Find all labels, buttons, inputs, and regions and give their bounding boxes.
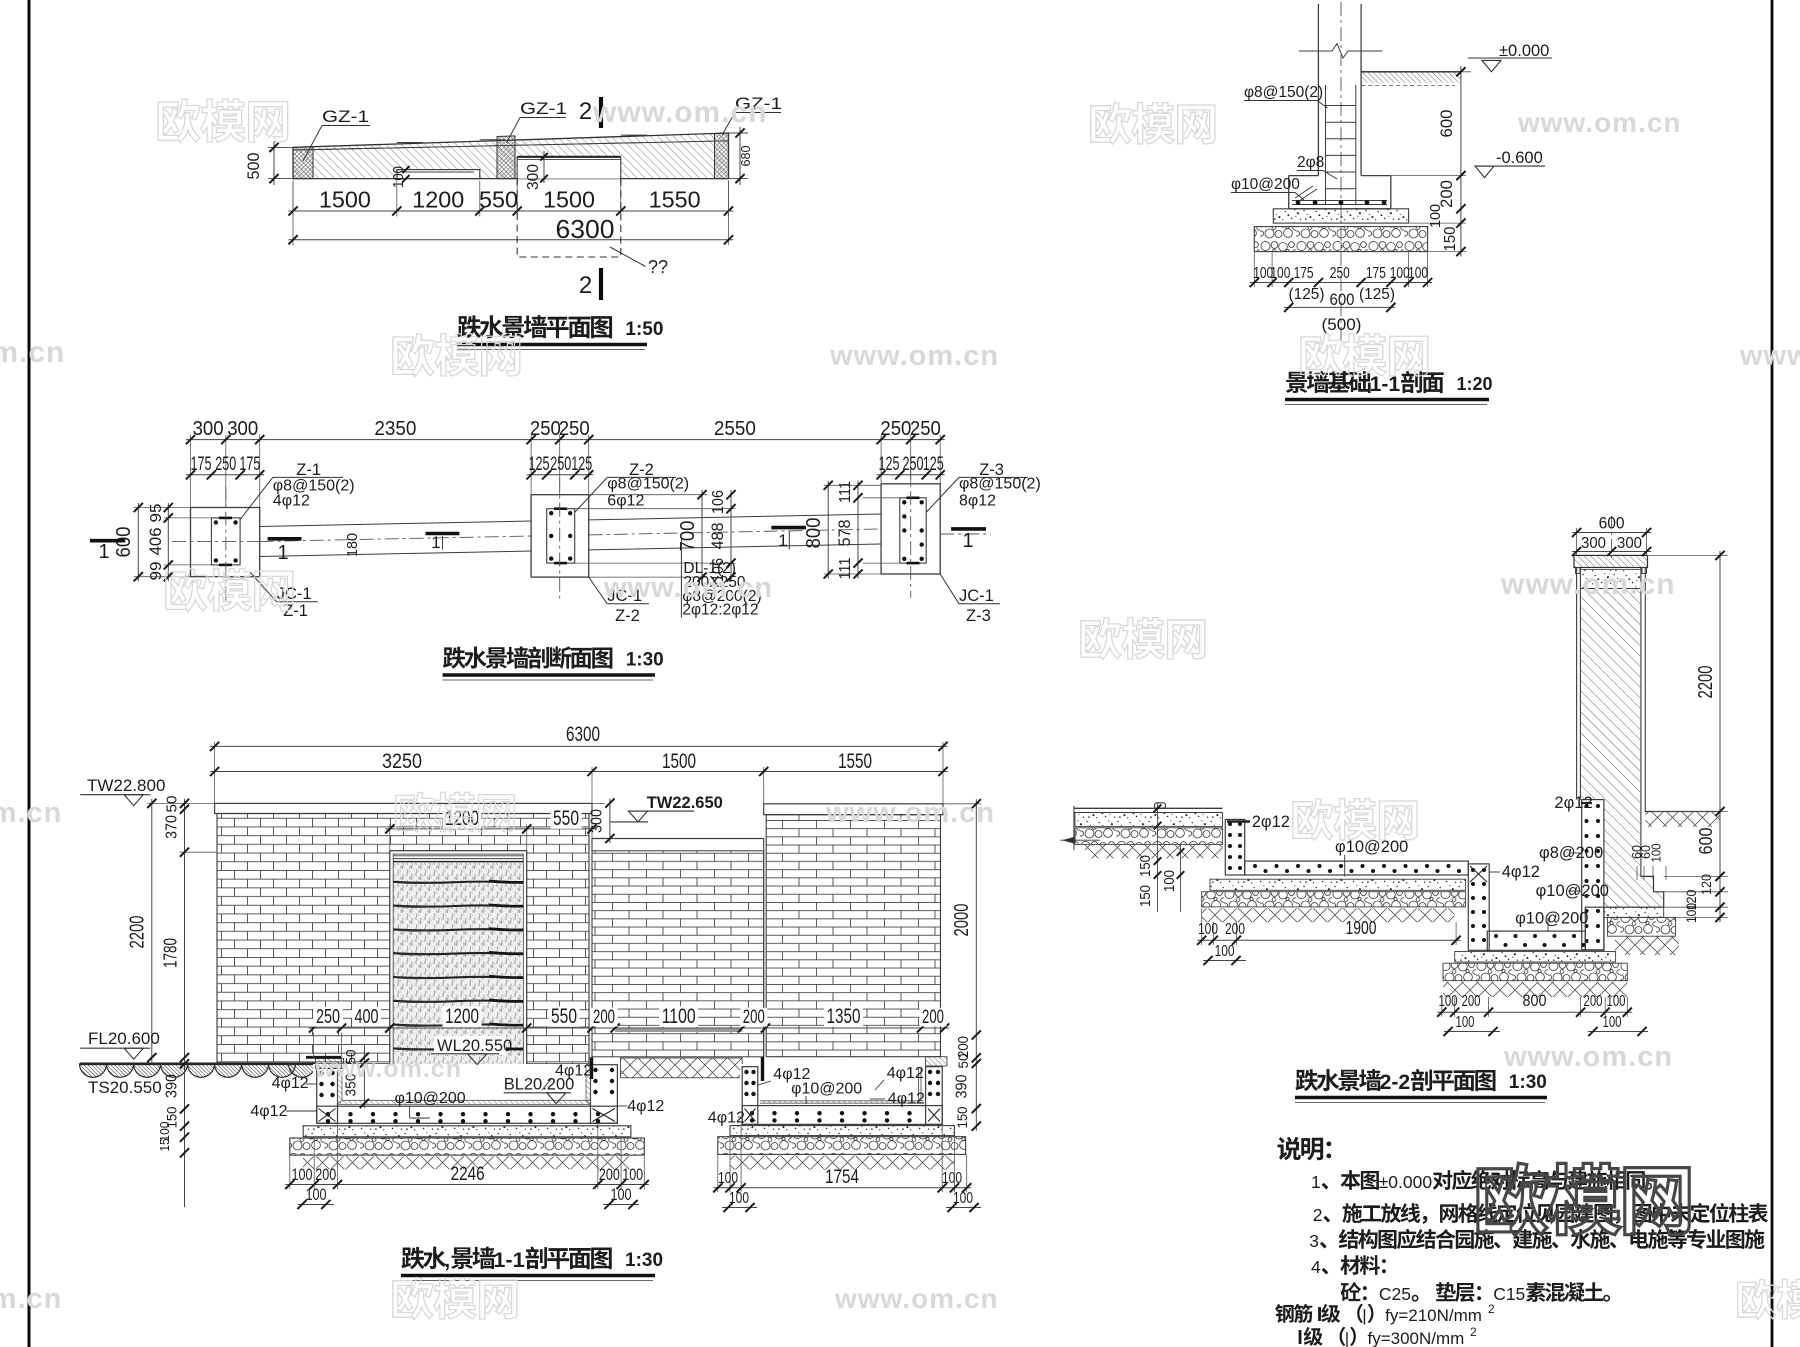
svg-text:250: 250 (1330, 265, 1350, 282)
svg-text:2000: 2000 (951, 904, 973, 937)
plan dim 680 right (729, 132, 749, 134)
svg-text:1500: 1500 (543, 187, 595, 213)
foundation C15 pad (stipple) (1273, 209, 1408, 223)
mid dim 800 for Z-3 (824, 484, 881, 486)
svg-text:1100: 1100 (662, 1005, 696, 1028)
svg-text:φ10@200: φ10@200 (395, 1090, 466, 1107)
elevation middle wall brick face (592, 851, 764, 1057)
foundation break line symbol (1299, 44, 1383, 59)
gray weir line middle section (615, 1029, 742, 1032)
mask right of border (1773, 1130, 1800, 1270)
svg-text:100: 100 (1427, 204, 1444, 228)
svg-text:111: 111 (837, 557, 854, 579)
elevation top dim 6300 (214, 742, 216, 804)
foundation footing step (1289, 175, 1319, 177)
svg-text:FL20.600: FL20.600 (88, 1029, 160, 1048)
svg-text:250: 250 (910, 418, 941, 440)
foundation centerline (1340, 2, 1342, 345)
svg-text:1550: 1550 (649, 187, 701, 213)
svg-text:1200: 1200 (412, 187, 464, 213)
svg-text:200: 200 (315, 1165, 336, 1184)
svg-text:φ10@200: φ10@200 (791, 1081, 862, 1098)
svg-text:2: 2 (1313, 1205, 1323, 1225)
svg-text:200: 200 (1462, 993, 1481, 1010)
section2-2 basin left wall 2phi12 (1225, 819, 1244, 875)
svg-text:4φ12: 4φ12 (627, 1098, 664, 1115)
foundation detail: wall stem (1317, 4, 1319, 51)
svg-text:www.om.cn: www.om.cn (834, 1283, 999, 1314)
basin1 slab rebar dots (326, 1112, 330, 1116)
basin1 wall rebar dots and X marks (319, 1071, 323, 1075)
svg-text:400: 400 (355, 1006, 379, 1028)
plan cap sliver line (293, 141, 729, 150)
svg-text:Z-2: Z-2 (615, 607, 640, 625)
section2-2 lower basin right wall (1585, 907, 1604, 950)
foundation ground line right with hatch (1361, 71, 1461, 73)
section2-2 left small dims 150/150/100 (1157, 803, 1159, 912)
svg-text:www.om.cn: www.om.cn (592, 96, 768, 129)
mid left dim 95/406/99 (164, 517, 212, 519)
section2-2 curb stone on pavement (1154, 803, 1165, 809)
svg-text:JC-1: JC-1 (277, 585, 312, 603)
svg-text:100: 100 (1603, 1014, 1622, 1031)
svg-text:150: 150 (1138, 855, 1154, 877)
plan middle notch 300 deep (517, 157, 621, 179)
svg-text:125: 125 (879, 454, 900, 475)
column Z-2 inner (547, 509, 575, 563)
section2-2 footing pads right (1604, 907, 1664, 917)
svg-text:GZ-1: GZ-1 (322, 107, 369, 126)
svg-text:200: 200 (599, 1165, 620, 1184)
svg-text:4φ12: 4φ12 (887, 1065, 924, 1082)
column footing JC-1 Z-2 (531, 495, 589, 577)
svg-text:1:30: 1:30 (625, 1250, 663, 1271)
svg-text:100: 100 (1390, 265, 1410, 282)
svg-text:125: 125 (529, 454, 550, 475)
svg-text:1900: 1900 (1346, 918, 1377, 938)
svg-text:800: 800 (803, 518, 825, 549)
svg-text:100: 100 (1607, 993, 1626, 1010)
svg-text:200: 200 (1584, 993, 1603, 1010)
svg-text:600: 600 (1599, 515, 1625, 533)
svg-text:300: 300 (525, 164, 542, 190)
svg-text:www.om.cn: www.om.cn (1739, 340, 1800, 372)
plan title 跌水景墙平面图 1:50 (458, 315, 613, 338)
svg-text:106: 106 (710, 490, 727, 514)
section2-2 wall top stipple band (1580, 570, 1641, 589)
svg-text:550: 550 (553, 807, 579, 830)
svg-text:1:20: 1:20 (1457, 374, 1493, 394)
svg-text:www.om.cn: www.om.cn (825, 797, 995, 829)
svg-text:250: 250 (316, 1006, 340, 1028)
svg-text:2200: 2200 (127, 916, 149, 949)
mid sub dim 175/250/175 for Z-1 (186, 474, 264, 476)
section2-2 wall body hatch lower with base steps (1604, 800, 1664, 908)
svg-text:1780: 1780 (161, 938, 181, 968)
svg-text:250: 250 (215, 454, 236, 475)
svg-text:TS20.550: TS20.550 (88, 1078, 162, 1097)
svg-text:4φ12: 4φ12 (555, 1063, 592, 1080)
column footing JC-1 Z-1 (191, 508, 260, 577)
section2-2 title 跌水景墙2-2剖平面图 1:30 (1295, 1069, 1381, 1091)
section2-2: left pavement slab (1074, 807, 1223, 809)
svg-text:125: 125 (923, 454, 944, 475)
svg-text:2: 2 (579, 272, 592, 299)
notes item 2 (1312, 1220, 1314, 1222)
svg-text:1:50: 1:50 (625, 319, 663, 340)
svg-text:680: 680 (738, 146, 753, 167)
section2-2 top dims 600 300/300 (1576, 528, 1578, 555)
svg-text:2200: 2200 (1695, 666, 1717, 699)
section2-2 continuation arrow left (1062, 837, 1075, 844)
foundation bent rebar marks (1295, 186, 1313, 198)
svg-text:600: 600 (1330, 291, 1355, 309)
mid label DL-1(2) 200X250 phi8@200(2) 2phi12:2phi12 (680, 539, 682, 618)
svg-text:I: I (1297, 1327, 1303, 1347)
svg-text:100: 100 (942, 1170, 962, 1187)
plan channel dim 100 rotated (403, 166, 410, 173)
heavy corner mark at middle wall base (761, 1057, 764, 1081)
wire beam segment col2-col3 (589, 514, 881, 520)
column Z-3 centerline (910, 466, 912, 598)
svg-text:1350: 1350 (827, 1005, 861, 1028)
elevation basin1 white背景 (313, 1064, 620, 1126)
elevation level FL20.600 (80, 1047, 150, 1049)
svg-text:(125): (125) (1359, 286, 1395, 303)
svg-text:390: 390 (164, 1074, 181, 1098)
section2-2 1900 bottom dims (1201, 908, 1203, 945)
basin2 soil hatch (730, 1156, 954, 1170)
notes item 3 (1308, 1246, 1310, 1248)
svg-text:1200: 1200 (445, 1005, 479, 1028)
section2-2 right dim chain 2200/600/120/120/100 (1647, 554, 1728, 556)
svg-text:6300: 6300 (556, 216, 615, 244)
elevation dim 1200/550 at panel top (389, 824, 391, 850)
svg-text:www.om.cn: www.om.cn (1517, 107, 1682, 138)
basin1 inner liner hatched (338, 1065, 591, 1105)
svg-text:578: 578 (835, 520, 854, 547)
svg-text:C15: C15 (1493, 1284, 1525, 1304)
foundation rebar cage ladder (1325, 85, 1327, 204)
svg-text:100: 100 (1439, 993, 1458, 1010)
section2-2 main bottom slab (1245, 861, 1469, 875)
svg-text:390: 390 (954, 1074, 971, 1098)
svg-text:250: 250 (559, 418, 590, 440)
plan GZ-1 column block right (cross hatch) (715, 133, 729, 179)
svg-text:2246: 2246 (451, 1164, 485, 1185)
beam centerline right stub (940, 533, 991, 535)
svg-text:C25: C25 (1379, 1284, 1411, 1304)
svg-text:,: , (444, 1247, 450, 1272)
watermark light row3 (166, 569, 293, 612)
svg-text:250: 250 (550, 454, 571, 475)
mid dim 106/488/106 for Z-2 (575, 508, 736, 510)
elevation left dim 390/150/100 lower (184, 1062, 186, 1207)
svg-text:www.om.cn: www.om.cn (314, 1055, 462, 1083)
plan GZ-1 column block middle (cross hatch) (497, 136, 515, 179)
elevation water panel frame (390, 851, 527, 1065)
svg-text:4φ12: 4φ12 (250, 1103, 287, 1120)
svg-text:150: 150 (954, 1106, 970, 1128)
svg-text:100: 100 (1270, 265, 1290, 282)
border frame (28, 0, 31, 1347)
svg-text:2550: 2550 (714, 418, 756, 440)
mid section cut mark 1 right end (951, 527, 986, 531)
basin2 bottom slab (742, 1106, 942, 1125)
svg-text:370: 370 (164, 815, 181, 839)
notes item 4 (1310, 1272, 1312, 1274)
basin1 left wall paving hatch above (315, 1059, 343, 1069)
foundation title 景墙基础1-1剖面 1:20 (1286, 371, 1371, 393)
svg-text:250: 250 (903, 454, 924, 475)
plan shallow channel recess 100 deep (397, 170, 480, 179)
elevation rotated 350/50 dim at basin1 left (363, 1050, 365, 1108)
basin2 inner liner with hatch ticks (760, 1102, 923, 1104)
svg-text:www.om.cn: www.om.cn (603, 572, 773, 604)
foundation level marker +-0.000 (1468, 57, 1552, 59)
notes item 1 (1310, 1187, 1312, 1189)
foundation rubble layer (cobbles) (1254, 227, 1427, 252)
svg-text:175: 175 (239, 454, 260, 475)
foundation bottom dim chain (1253, 252, 1255, 287)
svg-text:φ10@200: φ10@200 (1335, 838, 1408, 856)
svg-text:|: | (1362, 1306, 1366, 1325)
svg-text:www.om.cn: www.om.cn (1500, 568, 1676, 601)
section2-2 wall body hatch upper (1580, 589, 1641, 800)
mid dim 111/578/111 for Z-3 (863, 497, 900, 499)
foundation dim 600 (1284, 306, 1395, 308)
svg-text:4φ12: 4φ12 (1502, 863, 1540, 881)
svg-text:50: 50 (956, 1054, 971, 1069)
elevation basin2 white bg (740, 1064, 944, 1126)
svg-text:4φ12: 4φ12 (888, 1091, 925, 1108)
svg-text:99: 99 (148, 561, 165, 580)
svg-text:1: 1 (431, 533, 440, 552)
elevation WL20.550 level in basin (434, 1036, 506, 1055)
foundation level marker -0.600 (1475, 165, 1545, 167)
svg-text:120: 120 (1698, 874, 1714, 895)
svg-text:175: 175 (1366, 265, 1386, 282)
svg-text:www.om.cn: www.om.cn (829, 340, 999, 372)
basin1 left wall (317, 1068, 338, 1123)
svg-text:1: 1 (277, 542, 288, 564)
svg-text:200: 200 (593, 1007, 615, 1028)
mid sub dim 125/250/125 for Z-2 (527, 474, 594, 476)
svg-text:1: 1 (962, 530, 973, 552)
svg-text:550: 550 (551, 1005, 577, 1028)
section2-2 basin right wall 4phi12 (tall) (1468, 864, 1489, 950)
svg-text:175: 175 (1294, 265, 1314, 282)
svg-text:φ8@150(2): φ8@150(2) (959, 476, 1041, 493)
elevation ground line left with scallops (80, 1063, 315, 1066)
elevation left dim 2200 (147, 802, 214, 804)
svg-text:φ8@150(2): φ8@150(2) (607, 476, 689, 493)
section2-2 tall wall: rebar wall behind (1582, 800, 1604, 950)
svg-text:1-1: 1-1 (1370, 373, 1401, 396)
elevation basin2 bottom dims 100/1754/100 (717, 1154, 719, 1192)
svg-text:2: 2 (579, 98, 592, 125)
svg-text:(125): (125) (1289, 286, 1325, 303)
svg-text:100: 100 (1198, 921, 1218, 938)
basin2 left wall (742, 1067, 758, 1125)
svg-text:700: 700 (677, 521, 699, 552)
elevation ground hatch right of basin2 (926, 1057, 947, 1066)
svg-text:300: 300 (193, 418, 224, 440)
mid sub dim 125/250/125 for Z-3 (877, 474, 945, 476)
svg-text:www.om.cn: www.om.cn (1503, 1041, 1673, 1073)
water panel texture continues into basin (393, 1064, 523, 1066)
basin1 right wall (591, 1065, 618, 1124)
svg-text:600: 600 (1696, 828, 1716, 855)
svg-text:200: 200 (922, 1007, 944, 1028)
svg-text:φ10@200: φ10@200 (1515, 910, 1588, 928)
basin2 right wall (926, 1067, 943, 1125)
foundation right dim chain 600/200/100/150 (1391, 175, 1466, 177)
svg-text:1: 1 (1311, 1172, 1321, 1192)
svg-text:1:30: 1:30 (1509, 1072, 1547, 1093)
svg-text:1754: 1754 (825, 1167, 859, 1188)
svg-text:180: 180 (344, 533, 361, 557)
foundation footing rebar mesh with dots (1292, 200, 1387, 202)
elevation dim 300 at middle wall (609, 799, 611, 843)
svg-text:550: 550 (479, 187, 518, 213)
watermark light row1 (158, 99, 288, 143)
svg-text:1: 1 (778, 531, 787, 550)
basin2 cobble layer (718, 1137, 966, 1155)
plan wall outline with tapered cap (293, 133, 729, 179)
plan section mark 2 top (599, 97, 603, 128)
svg-text:1550: 1550 (838, 750, 872, 773)
column Z-2 centerline (559, 478, 561, 602)
water panel inlet lip lines (393, 855, 523, 857)
svg-text:200: 200 (1225, 921, 1245, 938)
mid title 跌水景墙剖断面图 1:30 (443, 646, 612, 668)
elevation level TW22.800 (80, 794, 150, 796)
svg-text:250: 250 (880, 418, 911, 440)
basin1 C15 pad stipple (303, 1126, 631, 1137)
svg-text:2φ12: 2φ12 (1252, 813, 1290, 831)
mid section cut mark 1 left end (90, 539, 125, 543)
section2-2 lower basin dims 100/200/800/200/100 (1441, 997, 1443, 1017)
plan bottom dimension chain 1500/1200/550/1500/1550 (292, 181, 294, 217)
svg-text:1-1: 1-1 (493, 1247, 524, 1272)
svg-text:100: 100 (1684, 903, 1699, 923)
svg-text:2φ8: 2φ8 (1297, 154, 1324, 171)
svg-text:fy=210N/mm: fy=210N/mm (1385, 1306, 1482, 1325)
basin2 slab rebar dots (750, 1111, 754, 1115)
plan leader to ?? label (610, 247, 646, 267)
svg-text:300: 300 (1581, 535, 1606, 552)
svg-text:??: ?? (648, 257, 668, 277)
column footing JC-1 Z-3 (881, 484, 940, 574)
svg-text:125: 125 (571, 454, 592, 475)
elevation middle wall top line (592, 838, 764, 840)
svg-text:3250: 3250 (382, 750, 422, 773)
svg-text:(500): (500) (1322, 315, 1362, 334)
svg-text:111: 111 (837, 481, 854, 503)
basin2 C15 pad stipple (730, 1126, 954, 1136)
svg-text:600: 600 (1437, 110, 1456, 138)
svg-text:TW22.650: TW22.650 (647, 794, 723, 812)
svg-text:50: 50 (164, 796, 181, 813)
water panel weir lines (393, 882, 523, 883)
svg-text:488: 488 (708, 523, 727, 550)
notes heading 说明： (1278, 1137, 1332, 1161)
svg-text:500: 500 (244, 153, 263, 180)
plan GZ-1 column block left (cross hatch) (293, 147, 313, 179)
svg-text:200: 200 (1437, 180, 1456, 208)
svg-text:300: 300 (227, 418, 258, 440)
svg-text:100: 100 (622, 1165, 643, 1184)
svg-text:100: 100 (1215, 943, 1235, 960)
svg-text:GZ-1: GZ-1 (520, 99, 567, 118)
basin1 bottom slab (317, 1106, 618, 1123)
elevation bottom dim 1200/550/200/1100/200/1350/200 (385, 1027, 949, 1029)
svg-text:φ10@200: φ10@200 (1231, 176, 1300, 193)
svg-text:15: 15 (157, 1139, 172, 1152)
svg-text:-0.600: -0.600 (1496, 149, 1543, 167)
basin2 wall dots and X (744, 1070, 748, 1074)
svg-text:406: 406 (146, 527, 165, 555)
column Z-3 inner (900, 498, 926, 563)
mid section cut mark 1 near Z-1 (268, 537, 302, 541)
svg-text:800: 800 (1523, 991, 1547, 1010)
svg-text:100: 100 (1408, 265, 1428, 282)
svg-text:fy=300N/mm: fy=300N/mm (1368, 1329, 1465, 1347)
svg-text:1500: 1500 (662, 750, 696, 773)
plan wall main hatch (293, 141, 729, 179)
basin1 cobble layer (290, 1138, 645, 1155)
plan dim 500 left (268, 146, 293, 148)
svg-text:150: 150 (1138, 885, 1154, 907)
svg-text:Z-3: Z-3 (966, 607, 991, 625)
watermark dark 欧模网 bottom right (1478, 1163, 1689, 1235)
svg-text:2: 2 (1488, 1302, 1495, 1316)
svg-text:|: | (1345, 1329, 1349, 1347)
svg-text:4φ12: 4φ12 (272, 1075, 309, 1092)
svg-text:8φ12: 8φ12 (959, 493, 996, 510)
notes material line (1341, 1282, 1367, 1301)
svg-text:100: 100 (1162, 870, 1178, 892)
mid left dim 600 (134, 507, 191, 509)
basin1 soil hatch (303, 1156, 631, 1169)
mid dim 700 for Z-2 (589, 494, 707, 496)
svg-text:4φ12: 4φ12 (708, 1109, 745, 1126)
mid section cut mark 1 middle beam (426, 532, 460, 536)
plan dashed outline of basin below (hidden) (517, 179, 621, 257)
column Z-1 inner (211, 518, 240, 565)
svg-text:1:30: 1:30 (626, 650, 664, 671)
mid section cut mark 1 near Z-3 (771, 526, 806, 530)
svg-text:250: 250 (530, 418, 561, 440)
section2-2 ground line right (1645, 811, 1720, 813)
svg-text:±0.000: ±0.000 (1499, 42, 1549, 60)
plan notch dim 300 rotated (543, 151, 545, 183)
column Z-1 centerlines (225, 487, 227, 606)
elevation ground hatch strip between basins (620, 1058, 742, 1078)
elevation bottom dim chain 250/400 (313, 1033, 315, 1059)
svg-text:175: 175 (191, 454, 212, 475)
section2-2 label 2phi12 at basin left wall (1227, 820, 1250, 822)
svg-text:6φ12: 6φ12 (607, 493, 644, 510)
svg-text:200: 200 (743, 1007, 765, 1028)
svg-text:Z-1: Z-1 (296, 461, 321, 479)
svg-text:1500: 1500 (319, 187, 371, 213)
svg-text:2-2: 2-2 (1380, 1071, 1411, 1094)
section2-2 lower basin slab (1487, 931, 1585, 950)
svg-text:150: 150 (1442, 226, 1459, 251)
svg-text:4: 4 (1311, 1257, 1321, 1277)
